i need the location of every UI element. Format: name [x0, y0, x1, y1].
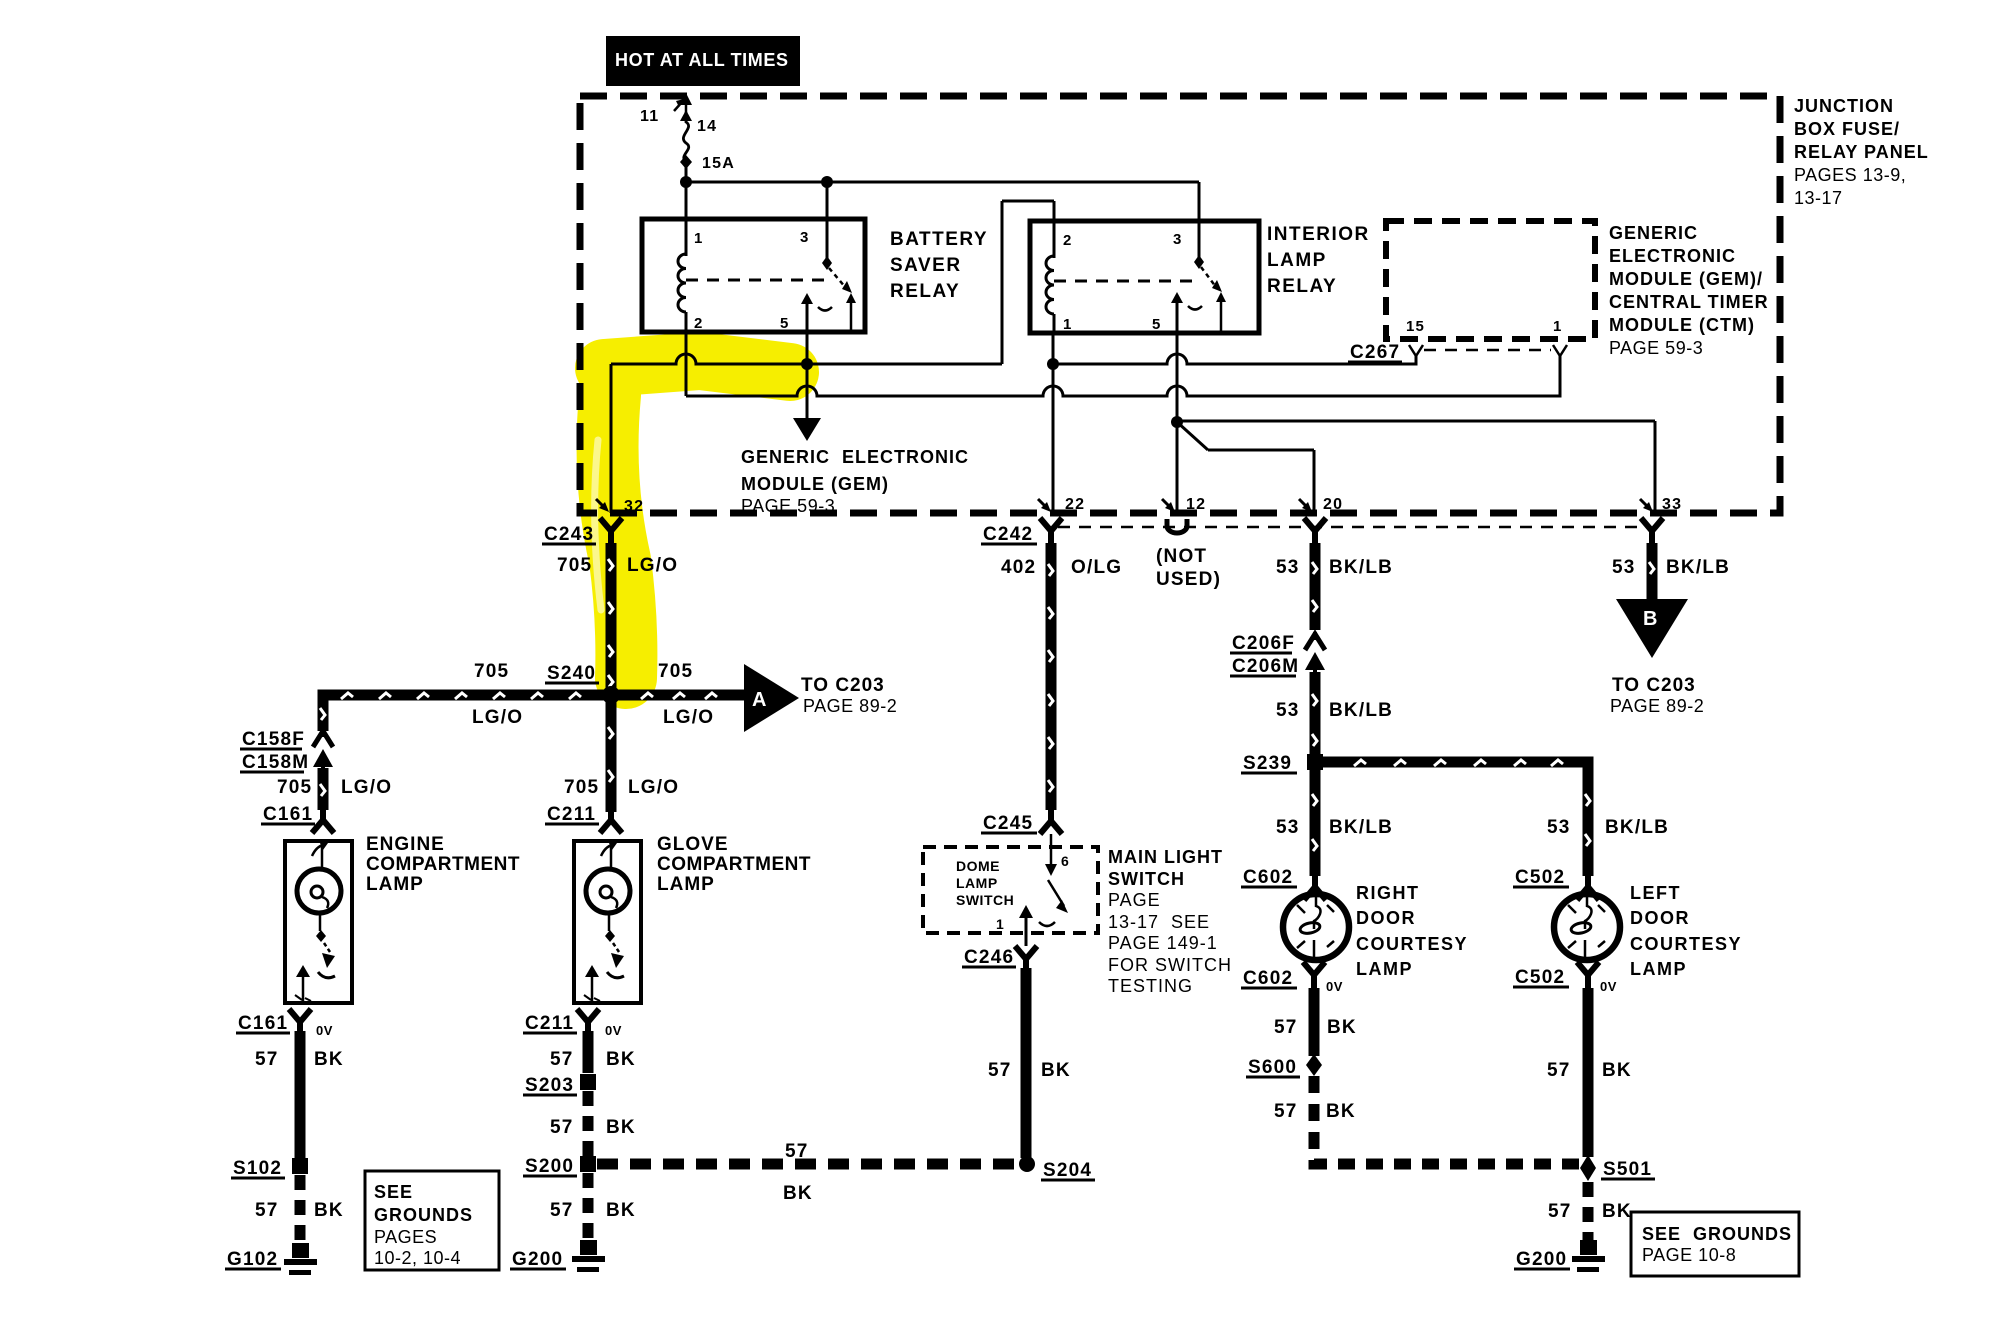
- svg-text:2: 2: [1063, 232, 1073, 249]
- svg-text:COURTESY: COURTESY: [1630, 934, 1742, 954]
- svg-text:MODULE (GEM): MODULE (GEM): [741, 474, 889, 494]
- svg-text:C245: C245: [983, 813, 1033, 834]
- svg-text:COURTESY: COURTESY: [1356, 934, 1468, 954]
- svg-text:JUNCTION: JUNCTION: [1794, 96, 1894, 116]
- svg-text:BK: BK: [606, 1200, 636, 1221]
- svg-text:C243: C243: [544, 524, 594, 545]
- svg-text:RIGHT: RIGHT: [1356, 883, 1420, 903]
- svg-text:BK: BK: [606, 1117, 636, 1138]
- svg-text:LAMP: LAMP: [657, 874, 715, 895]
- svg-text:S203: S203: [525, 1075, 574, 1096]
- svg-text:53: 53: [1276, 557, 1300, 578]
- svg-text:BK/LB: BK/LB: [1666, 557, 1730, 578]
- svg-text:0V: 0V: [1326, 979, 1343, 994]
- svg-text:BK: BK: [606, 1049, 636, 1070]
- svg-text:DOOR: DOOR: [1630, 908, 1690, 928]
- svg-text:57: 57: [1274, 1101, 1298, 1122]
- svg-text:3: 3: [800, 229, 810, 246]
- svg-text:13-17 SEE: 13-17 SEE: [1108, 912, 1210, 932]
- svg-text:LG/O: LG/O: [628, 777, 679, 798]
- svg-text:1: 1: [996, 916, 1005, 932]
- svg-text:SAVER: SAVER: [890, 255, 962, 276]
- svg-text:705: 705: [564, 777, 599, 798]
- svg-text:57: 57: [550, 1049, 574, 1070]
- svg-text:BK/LB: BK/LB: [1329, 817, 1393, 838]
- svg-text:G102: G102: [227, 1249, 278, 1270]
- svg-text:O/LG: O/LG: [1071, 557, 1122, 578]
- svg-text:57: 57: [550, 1117, 574, 1138]
- svg-text:G200: G200: [1516, 1249, 1567, 1270]
- svg-text:57: 57: [988, 1060, 1012, 1081]
- svg-text:57: 57: [550, 1200, 574, 1221]
- svg-text:C602: C602: [1243, 968, 1293, 989]
- svg-text:705: 705: [557, 555, 592, 576]
- svg-text:13-17: 13-17: [1794, 188, 1843, 208]
- svg-text:32: 32: [624, 498, 644, 515]
- svg-text:C211: C211: [525, 1013, 574, 1034]
- svg-text:PAGE 149-1: PAGE 149-1: [1108, 933, 1218, 953]
- svg-text:5: 5: [1152, 316, 1162, 333]
- svg-text:LAMP: LAMP: [1267, 250, 1327, 271]
- svg-text:PAGE 59-3: PAGE 59-3: [741, 496, 835, 516]
- svg-text:G200: G200: [512, 1249, 563, 1270]
- svg-text:BK/LB: BK/LB: [1329, 557, 1393, 578]
- svg-text:(NOT: (NOT: [1156, 546, 1207, 567]
- svg-text:53: 53: [1276, 700, 1300, 721]
- svg-text:12: 12: [1186, 496, 1206, 513]
- svg-text:S501: S501: [1603, 1159, 1652, 1180]
- svg-text:53: 53: [1612, 557, 1636, 578]
- svg-text:C206M: C206M: [1232, 656, 1299, 677]
- svg-text:705: 705: [474, 661, 509, 682]
- svg-text:10-2, 10-4: 10-2, 10-4: [374, 1248, 461, 1268]
- svg-text:LG/O: LG/O: [341, 777, 392, 798]
- svg-text:C161: C161: [238, 1013, 288, 1034]
- svg-text:CENTRAL TIMER: CENTRAL TIMER: [1609, 292, 1769, 312]
- svg-text:C502: C502: [1515, 967, 1565, 988]
- svg-text:705: 705: [277, 777, 312, 798]
- svg-text:14: 14: [697, 118, 717, 135]
- svg-text:22: 22: [1065, 496, 1085, 513]
- svg-text:C602: C602: [1243, 867, 1293, 888]
- svg-text:PAGE: PAGE: [1108, 890, 1161, 910]
- svg-text:TESTING: TESTING: [1108, 976, 1193, 996]
- svg-text:RELAY PANEL: RELAY PANEL: [1794, 142, 1929, 162]
- svg-text:57: 57: [1547, 1060, 1571, 1081]
- svg-text:1: 1: [694, 230, 704, 247]
- svg-text:C161: C161: [263, 804, 313, 825]
- svg-text:1: 1: [1553, 318, 1563, 335]
- svg-text:LAMP: LAMP: [1356, 959, 1413, 979]
- svg-text:0V: 0V: [1600, 979, 1617, 994]
- svg-text:20: 20: [1323, 496, 1343, 513]
- svg-text:BK: BK: [1041, 1060, 1071, 1081]
- svg-text:C211: C211: [547, 804, 596, 825]
- svg-text:LAMP: LAMP: [1630, 959, 1687, 979]
- svg-text:MODULE (GEM)/: MODULE (GEM)/: [1609, 269, 1763, 289]
- svg-text:705: 705: [658, 661, 693, 682]
- svg-text:USED): USED): [1156, 569, 1221, 590]
- svg-text:TO C203: TO C203: [801, 675, 885, 696]
- svg-text:LG/O: LG/O: [472, 707, 523, 728]
- svg-text:MAIN LIGHT: MAIN LIGHT: [1108, 847, 1223, 867]
- svg-text:15A: 15A: [702, 155, 735, 172]
- svg-text:53: 53: [1276, 817, 1300, 838]
- svg-text:S204: S204: [1043, 1160, 1092, 1181]
- svg-text:INTERIOR: INTERIOR: [1267, 224, 1370, 245]
- svg-text:BOX FUSE/: BOX FUSE/: [1794, 119, 1900, 139]
- svg-text:C246: C246: [964, 947, 1014, 968]
- svg-text:C206F: C206F: [1232, 633, 1295, 654]
- svg-text:57: 57: [1548, 1201, 1572, 1222]
- svg-text:RELAY: RELAY: [890, 281, 960, 302]
- svg-text:BK/LB: BK/LB: [1605, 817, 1669, 838]
- svg-text:SWITCH: SWITCH: [956, 892, 1014, 908]
- svg-text:11: 11: [640, 108, 659, 125]
- svg-text:S240: S240: [547, 663, 596, 684]
- svg-text:6: 6: [1061, 853, 1070, 869]
- svg-text:1: 1: [1063, 316, 1073, 333]
- svg-text:C267: C267: [1350, 342, 1400, 363]
- svg-text:PAGE 89-2: PAGE 89-2: [803, 696, 897, 716]
- svg-text:0V: 0V: [316, 1023, 333, 1038]
- svg-text:GROUNDS: GROUNDS: [374, 1205, 473, 1225]
- svg-text:LG/O: LG/O: [627, 555, 678, 576]
- svg-text:PAGE 59-3: PAGE 59-3: [1609, 338, 1703, 358]
- svg-text:2: 2: [694, 315, 704, 332]
- svg-text:COMPARTMENT: COMPARTMENT: [366, 854, 520, 875]
- svg-text:BK/LB: BK/LB: [1329, 700, 1393, 721]
- svg-text:SEE GROUNDS: SEE GROUNDS: [1642, 1224, 1792, 1244]
- svg-text:S239: S239: [1243, 753, 1292, 774]
- svg-text:402: 402: [1001, 557, 1036, 578]
- svg-text:BK: BK: [314, 1200, 344, 1221]
- svg-text:S102: S102: [233, 1158, 282, 1179]
- svg-text:S600: S600: [1248, 1057, 1297, 1078]
- svg-text:15: 15: [1406, 318, 1425, 335]
- svg-text:HOT AT ALL TIMES: HOT AT ALL TIMES: [615, 50, 789, 70]
- svg-text:PAGES: PAGES: [374, 1227, 437, 1247]
- svg-text:BK: BK: [1602, 1060, 1632, 1081]
- svg-text:C502: C502: [1515, 867, 1565, 888]
- svg-text:57: 57: [255, 1049, 279, 1070]
- svg-text:BK: BK: [783, 1183, 813, 1204]
- svg-text:BK: BK: [1602, 1201, 1632, 1222]
- svg-text:BK: BK: [314, 1049, 344, 1070]
- svg-text:BK: BK: [1327, 1017, 1357, 1038]
- svg-text:PAGE 89-2: PAGE 89-2: [1610, 696, 1704, 716]
- svg-text:SEE: SEE: [374, 1182, 413, 1202]
- svg-text:DOME: DOME: [956, 858, 1000, 874]
- svg-text:A: A: [752, 689, 768, 711]
- svg-text:PAGE 10-8: PAGE 10-8: [1642, 1245, 1736, 1265]
- svg-text:53: 53: [1547, 817, 1571, 838]
- svg-text:ENGINE: ENGINE: [366, 834, 445, 855]
- svg-text:FOR SWITCH: FOR SWITCH: [1108, 955, 1232, 975]
- svg-text:LEFT: LEFT: [1630, 883, 1681, 903]
- svg-text:GENERIC: GENERIC: [1609, 223, 1698, 243]
- svg-text:S200: S200: [525, 1156, 574, 1177]
- svg-text:MODULE (CTM): MODULE (CTM): [1609, 315, 1755, 335]
- svg-text:DOOR: DOOR: [1356, 908, 1416, 928]
- svg-text:GENERIC ELECTRONIC: GENERIC ELECTRONIC: [741, 447, 969, 467]
- svg-text:57: 57: [255, 1200, 279, 1221]
- svg-text:57: 57: [785, 1141, 809, 1162]
- svg-text:57: 57: [1274, 1017, 1298, 1038]
- svg-text:PAGES 13-9,: PAGES 13-9,: [1794, 165, 1906, 185]
- svg-text:C158F: C158F: [242, 729, 305, 750]
- svg-text:COMPARTMENT: COMPARTMENT: [657, 854, 811, 875]
- svg-text:LAMP: LAMP: [956, 875, 998, 891]
- svg-text:LG/O: LG/O: [663, 707, 714, 728]
- svg-text:C242: C242: [983, 524, 1033, 545]
- svg-text:33: 33: [1662, 496, 1682, 513]
- svg-text:GLOVE: GLOVE: [657, 834, 729, 855]
- svg-text:0V: 0V: [605, 1023, 622, 1038]
- svg-text:C158M: C158M: [242, 752, 309, 773]
- svg-text:BK: BK: [1326, 1101, 1356, 1122]
- svg-text:3: 3: [1173, 231, 1183, 248]
- svg-text:SWITCH: SWITCH: [1108, 869, 1185, 889]
- svg-text:BATTERY: BATTERY: [890, 229, 988, 250]
- svg-text:5: 5: [780, 315, 790, 332]
- svg-text:TO C203: TO C203: [1612, 675, 1696, 696]
- svg-text:ELECTRONIC: ELECTRONIC: [1609, 246, 1736, 266]
- svg-text:LAMP: LAMP: [366, 874, 424, 895]
- svg-text:RELAY: RELAY: [1267, 276, 1337, 297]
- svg-text:B: B: [1643, 608, 1659, 630]
